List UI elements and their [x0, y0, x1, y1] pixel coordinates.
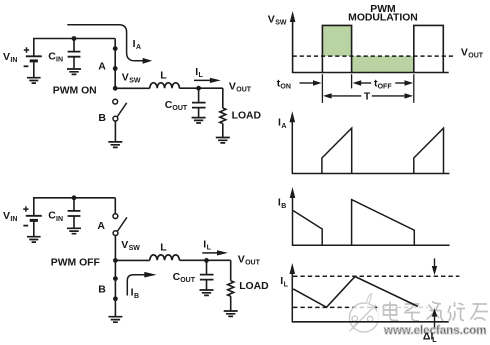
svg-text:PWM ON: PWM ON: [53, 85, 97, 96]
wire to switch A terminal (PWM OFF): [114, 198, 116, 214]
svg-text:L: L: [160, 69, 167, 81]
baseline VSW plot: [292, 72, 449, 74]
capacitor CIN stem top: [73, 39, 75, 52]
arrow T right head: [372, 95, 405, 97]
svg-text:A: A: [136, 44, 141, 51]
axis IB: [292, 198, 294, 246]
svg-text:B: B: [134, 293, 139, 300]
IA waveform ramp 1: [322, 128, 352, 173]
dashed line IL valley level: [293, 306, 436, 308]
wire LOAD to ground (PWM ON): [222, 124, 224, 138]
svg-text:V: V: [461, 46, 468, 58]
watermark hanzi white backing band: [377, 300, 490, 323]
wire COUT to ground (PWM OFF): [206, 280, 208, 290]
svg-text:IN: IN: [56, 57, 63, 64]
axis VSW: [292, 22, 294, 73]
switch A open terminal 1 (PWM OFF): [113, 214, 118, 219]
wire VOUT branch down (PWM ON): [222, 88, 224, 108]
ground CIN: [67, 69, 81, 74]
IL waveform triangle ripple: [293, 277, 418, 308]
IA waveform ramp 2: [414, 128, 444, 173]
node switch A terminal 1: [113, 46, 118, 51]
battery VIN plus sign: [24, 47, 29, 52]
svg-text:V: V: [268, 13, 275, 25]
capacitor CIN plates (PWM OFF): [68, 211, 81, 216]
baseline IA plot: [292, 173, 450, 175]
svg-text:OUT: OUT: [245, 259, 261, 266]
wire LOAD to ground (PWM OFF): [230, 296, 232, 311]
wire VOUT branch down (PWM OFF): [230, 260, 232, 280]
node switch A terminal 2: [113, 66, 118, 71]
wire CIN to ground (PWM OFF): [73, 216, 75, 228]
svg-text:L: L: [199, 72, 204, 79]
baseline IB plot: [292, 244, 450, 246]
battery VIN minus sign: [24, 65, 29, 67]
node VSW junction (PWM ON): [113, 86, 118, 91]
capacitor COUT plates (PWM OFF): [200, 275, 214, 280]
VSW pulse 1 outline: [322, 25, 351, 72]
node Cin top junction (PWM OFF): [72, 195, 77, 200]
svg-text:V: V: [3, 51, 10, 63]
marker tick pulse1 right: [351, 74, 353, 88]
ground LOAD (PWM OFF): [224, 311, 238, 316]
svg-text:OUT: OUT: [180, 277, 196, 284]
axis IA: [291, 122, 293, 174]
svg-text:PWM OFF: PWM OFF: [51, 257, 100, 268]
green area tOFF (below VOUT level): [352, 56, 414, 72]
svg-text:A: A: [281, 123, 286, 130]
VSW pulse 2 outline: [414, 25, 444, 72]
switch A lever (PWM OFF): [118, 217, 127, 231]
arrow tON: [300, 82, 315, 84]
battery VIN long plate: [26, 55, 42, 57]
svg-text:B: B: [281, 203, 286, 210]
capacitor CIN stem top (PWM OFF): [73, 198, 75, 211]
svg-text:L: L: [160, 241, 167, 253]
ground battery VIN (PWM OFF): [27, 237, 41, 242]
wire switch A to ground through B (PWM OFF): [114, 236, 116, 317]
wire VSW to inductor (PWM ON): [115, 87, 150, 89]
resistor LOAD (PWM OFF): [228, 281, 234, 297]
arrow IB curved: [127, 275, 144, 296]
svg-text:LOAD: LOAD: [239, 281, 269, 292]
dashed line IL peak level: [293, 275, 459, 277]
capacitor CIN plates: [68, 52, 81, 57]
svg-text:T: T: [364, 92, 371, 103]
ground switch B (PWM OFF): [108, 317, 122, 323]
wire switch B to ground (PWM ON): [114, 121, 116, 142]
switch A open terminal 2 (PWM OFF): [113, 231, 118, 236]
svg-text:V: V: [121, 239, 128, 251]
svg-text:MODULATION: MODULATION: [348, 12, 418, 23]
svg-text:L: L: [432, 337, 437, 344]
svg-text:A: A: [98, 60, 106, 72]
arrow IL (PWM ON): [194, 79, 211, 81]
svg-text:IN: IN: [10, 57, 17, 64]
ground LOAD (PWM ON): [216, 138, 230, 143]
capacitor COUT stem (PWM OFF): [206, 260, 208, 274]
svg-text:ON: ON: [280, 84, 291, 91]
node COUT junction (PWM ON): [196, 86, 201, 91]
svg-text:L: L: [207, 245, 212, 252]
svg-text:A: A: [97, 220, 105, 232]
arrow IL (PWM OFF): [202, 252, 218, 254]
node switch B terminal 1 (PWM OFF): [113, 276, 118, 281]
ground COUT (PWM ON): [192, 118, 206, 123]
switch B open terminal 1 (PWM ON): [113, 99, 118, 104]
svg-text:V: V: [122, 71, 129, 83]
svg-text:OUT: OUT: [172, 105, 188, 112]
svg-text:OFF: OFF: [378, 84, 393, 91]
svg-text:SW: SW: [275, 20, 287, 27]
node Cin top junction: [72, 36, 77, 41]
capacitor COUT plates (PWM ON): [192, 103, 206, 108]
wire switch A closed run: [114, 39, 116, 89]
arrow tOFF left head: [361, 82, 371, 84]
svg-text:V: V: [238, 253, 245, 265]
watermark logo circle: [350, 294, 379, 332]
inductor L (PWM ON): [150, 83, 180, 88]
switch B open terminal 2 (PWM ON): [113, 116, 118, 121]
wire COUT to ground (PWM ON): [198, 108, 200, 118]
wire battery to ground: [33, 62, 35, 77]
ground switch B (PWM ON): [108, 142, 122, 148]
node switch B terminal 2 (PWM OFF): [113, 296, 118, 301]
wire VSW to inductor (PWM OFF): [115, 259, 149, 261]
wire CIN to ground: [73, 57, 75, 69]
arrow T left head: [331, 95, 361, 97]
battery VIN plus sign (PWM OFF): [23, 206, 28, 211]
arrow up at IL valley level (delta IL): [434, 316, 436, 328]
svg-text:B: B: [98, 112, 106, 124]
dashed line VOUT level: [293, 55, 456, 57]
watermark hanzi characters: [384, 302, 489, 321]
svg-text:SW: SW: [129, 77, 141, 84]
green area tON (above VOUT level): [322, 25, 351, 56]
switch B lever (PWM ON): [117, 103, 126, 117]
battery VIN short plate: [30, 59, 38, 62]
wire top rail PWM OFF (battery to switch A): [34, 198, 116, 216]
wire inductor to VOUT corner (PWM ON): [179, 87, 222, 89]
ground battery VIN: [27, 78, 41, 83]
wire top rail PWM ON (battery to switch A corner): [34, 39, 115, 57]
svg-text:L: L: [284, 281, 289, 288]
wire inductor to VOUT corner (PWM OFF): [179, 259, 230, 261]
battery VIN long plate (PWM OFF): [26, 215, 42, 217]
svg-text:V: V: [3, 210, 10, 222]
svg-text:SW: SW: [129, 245, 141, 252]
arrow down at IL peak level: [434, 258, 436, 266]
arrow tOFF right head: [395, 82, 405, 84]
capacitor COUT stem (PWM ON): [198, 88, 200, 102]
IB waveform: [293, 200, 414, 246]
baseline IL plot: [292, 321, 449, 323]
svg-text:V: V: [229, 80, 236, 92]
resistor LOAD (PWM ON): [220, 108, 226, 124]
svg-text:OUT: OUT: [468, 52, 484, 59]
axis IL: [291, 274, 293, 322]
battery VIN short plate (PWM OFF): [30, 219, 38, 222]
node VSW junction (PWM OFF): [113, 258, 118, 263]
svg-text:IN: IN: [56, 216, 63, 223]
wire battery to ground (PWM OFF): [33, 222, 35, 237]
inductor L (PWM OFF): [150, 255, 180, 260]
marker tick pulse2 left: [413, 74, 415, 103]
marker tick pulse1 left: [321, 74, 323, 103]
node COUT junction (PWM OFF): [204, 258, 209, 263]
svg-text:B: B: [98, 283, 106, 295]
arrow IA curved: [67, 25, 143, 61]
ground CIN (PWM OFF): [67, 228, 81, 233]
svg-text:IN: IN: [10, 216, 17, 223]
svg-text:LOAD: LOAD: [232, 111, 262, 122]
ground COUT (PWM OFF): [200, 290, 214, 295]
battery VIN minus sign (PWM OFF): [23, 225, 28, 227]
svg-text:OUT: OUT: [236, 87, 252, 94]
